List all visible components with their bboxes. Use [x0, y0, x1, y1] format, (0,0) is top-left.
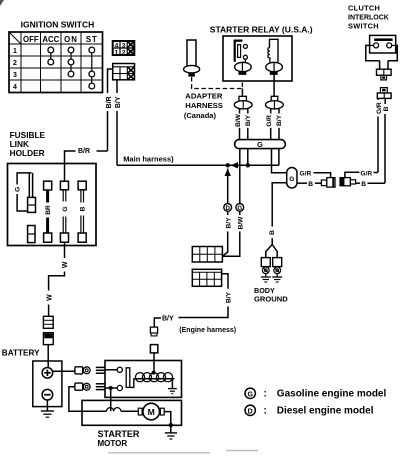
relay coil symbol: [268, 39, 278, 62]
switch contacts: [370, 44, 374, 46]
starter relay box: [223, 36, 292, 81]
svg-text:ON: ON: [64, 35, 78, 44]
SECTION: body ground: [254, 230, 288, 303]
svg-text:IGNITION SWITCH: IGNITION SWITCH: [21, 19, 95, 29]
wire G/R down: [377, 98, 379, 100]
motor inductor: [107, 408, 121, 412]
legend G circle: [245, 388, 255, 398]
prong connector (top): [96, 367, 105, 373]
ignition switch table grid: [9, 32, 103, 93]
wire relay to connector (left): [241, 89, 243, 97]
svg-text:GROUND: GROUND: [254, 294, 288, 303]
svg-text:2: 2: [13, 60, 17, 67]
wire down to solenoid: [153, 353, 155, 361]
split to two grounds: [266, 245, 272, 258]
svg-text:G/R: G/R: [300, 171, 312, 178]
inline connector (striped): [43, 316, 53, 328]
fusible link B: [78, 181, 87, 242]
wire B down: [384, 98, 386, 104]
svg-text:B/R: B/R: [106, 96, 113, 108]
wire from bottom connector loop to motor: [69, 387, 107, 412]
SECTION: bus and middle wiring: [117, 140, 385, 361]
leads and labels G/R, B/Y: [270, 109, 272, 114]
svg-text:1: 1: [115, 50, 119, 57]
relay coil base: [266, 62, 283, 71]
wire B/Y(D) below circle: [227, 211, 229, 215]
contact circles: [48, 47, 95, 89]
svg-text:B/W: B/W: [237, 216, 244, 230]
switch bar: [374, 38, 392, 41]
bullet connector with eyelet (top): [75, 367, 90, 374]
svg-text:STARTER: STARTER: [98, 429, 140, 439]
junction dot on motor box edge: [169, 423, 173, 427]
junction dot on coil (B/Y entry): [152, 371, 156, 375]
arrow left on harness: [231, 162, 239, 168]
battery plus terminal: [42, 368, 53, 379]
wire B/W(G) below circle: [239, 211, 241, 215]
inline connector (dark top): [43, 333, 53, 345]
spare connector below: [28, 226, 35, 243]
svg-text:CLUTCH: CLUTCH: [348, 3, 380, 12]
clutch connector lower: [377, 88, 391, 99]
junction dot 2: [246, 163, 250, 167]
svg-text:B: B: [308, 181, 313, 188]
svg-text:MOTOR: MOTOR: [98, 439, 128, 448]
wire B left of oval to body ground drop: [272, 183, 287, 227]
SECTION: battery and starter motor: [2, 348, 182, 448]
svg-text:4: 4: [13, 84, 17, 91]
svg-text:G: G: [289, 176, 294, 183]
solenoid coil winding: [135, 373, 172, 382]
legend D circle: [245, 405, 255, 415]
ground terminal right: [272, 258, 282, 282]
label B on oval right: [297, 182, 307, 184]
solenoid contact stub top: [105, 369, 117, 371]
svg-text:B/Y: B/Y: [245, 114, 252, 126]
connector bus G (stadium): [235, 140, 286, 149]
circle D marker: [224, 204, 232, 212]
solenoid coil axis: [134, 378, 175, 380]
svg-text:OFF: OFF: [23, 35, 39, 44]
battery minus terminal: [42, 389, 53, 400]
connector oval G: [287, 168, 297, 189]
svg-text:(Canada): (Canada): [184, 111, 217, 120]
fusible link G loop: [17, 173, 32, 211]
contact connection lines: [51, 50, 92, 86]
motor box: [82, 400, 182, 425]
svg-text:B: B: [80, 206, 87, 211]
solenoid box: [105, 361, 182, 398]
wire G/R hook into right bullet: [345, 172, 360, 177]
engine connector block 1: [192, 247, 222, 263]
wire B/Y into solenoid: [153, 361, 155, 373]
svg-text:Gasoline engine model: Gasoline engine model: [277, 389, 387, 400]
wire W to battery: [47, 345, 49, 368]
svg-text:B/Y: B/Y: [115, 96, 122, 108]
connector pair below relay (left): [234, 96, 252, 109]
motor brushes: [138, 408, 142, 415]
wire G/R to clutch: [374, 172, 379, 174]
relay contact symbol: [235, 41, 248, 63]
SECTION: fusible link holder: [8, 130, 108, 368]
svg-text:B: B: [361, 181, 366, 188]
clutch switch box: [370, 35, 396, 53]
svg-text:ADAPTER: ADAPTER: [185, 91, 223, 100]
switch side wires: [366, 45, 380, 60]
wire B/Y from block 2: [222, 274, 228, 289]
circle G marker: [236, 204, 244, 212]
label B/Y (vertical): [114, 93, 122, 111]
svg-text:G/R: G/R: [360, 170, 372, 177]
wire W down from G link: [64, 242, 66, 258]
bus leg to harness junction: [247, 149, 249, 166]
svg-text:1: 1: [13, 48, 17, 55]
wire W to connector: [48, 305, 50, 317]
SECTION: legend: [245, 388, 386, 417]
svg-text:ACC: ACC: [42, 35, 59, 44]
fusible link holder box: [8, 164, 97, 246]
connector block (numbered 4/3/1/2): [113, 41, 135, 57]
dashed wire adapter to relay: [192, 77, 243, 89]
solenoid contact circle bottom: [117, 385, 122, 390]
svg-text:G: G: [62, 206, 69, 211]
bullet connector left: [321, 178, 335, 188]
svg-text:B/W: B/W: [235, 113, 242, 127]
wire contact to motor: [110, 388, 112, 411]
svg-text:STARTER RELAY (U.S.A.): STARTER RELAY (U.S.A.): [210, 24, 313, 34]
svg-text:Diesel engine model: Diesel engine model: [277, 406, 374, 417]
motor circle: [143, 403, 160, 420]
scan artifact marks: [0, 0, 4, 6]
svg-text:D: D: [225, 205, 230, 212]
prong connector (bottom): [96, 384, 105, 390]
clutch connector upper: [377, 69, 392, 80]
svg-text:B/Y: B/Y: [162, 316, 174, 323]
wire from G link up to B/R label: [65, 151, 76, 181]
battery box: [33, 361, 62, 407]
SECTION: connector blocks top left: [105, 41, 135, 165]
fusible link G connector: [28, 197, 36, 212]
svg-text::: :: [264, 406, 267, 417]
solenoid contact circle top: [117, 367, 122, 372]
arrow up on D wire: [225, 169, 231, 176]
svg-text:B: B: [269, 230, 276, 235]
solenoid plunger bar: [126, 368, 130, 388]
adapter harness fusible link: [184, 40, 200, 77]
wire G/R to bullet connector: [314, 173, 331, 178]
svg-text:SWITCH: SWITCH: [348, 21, 379, 30]
wire battery plus to connector: [53, 370, 75, 372]
svg-text:Main harness): Main harness): [123, 155, 174, 164]
svg-text:G: G: [257, 140, 263, 149]
solenoid contact stub bottom: [105, 387, 117, 389]
junction dot 1: [226, 163, 230, 167]
bus leg to G circle wire (B/W): [239, 149, 241, 204]
solenoid coil ground: [171, 379, 173, 389]
switch stem: [379, 61, 381, 69]
wire B to clutch: [368, 182, 386, 184]
svg-text:BATTERY: BATTERY: [2, 348, 40, 357]
wire B resumes: [271, 238, 273, 245]
svg-text:(Engine harness): (Engine harness): [179, 327, 236, 334]
bullet connector with eyelet (bottom): [75, 383, 90, 390]
wire D branch down: [227, 169, 229, 204]
svg-text:B: B: [383, 106, 390, 111]
fusible link BR: [44, 181, 53, 242]
engine harness connector A: [150, 327, 157, 336]
svg-text:ST: ST: [86, 35, 98, 44]
wire B/R from connector block: [108, 69, 113, 151]
wire relay coil to connector (right): [273, 75, 275, 96]
label B/R (vertical): [105, 93, 113, 111]
svg-text:G/R: G/R: [376, 102, 383, 114]
battery ground: [46, 400, 48, 411]
svg-text:B/Y: B/Y: [276, 114, 283, 126]
svg-text:W: W: [46, 294, 53, 301]
svg-text:G/R: G/R: [266, 115, 273, 127]
main harness wire: [117, 164, 279, 166]
wire motor to ground: [164, 412, 171, 426]
svg-text:G: G: [15, 187, 22, 192]
SECTION: ignition switch: [9, 19, 103, 92]
wire B/Y from connector block: [116, 80, 118, 166]
svg-text:G: G: [247, 391, 253, 398]
wire B after bullet: [356, 182, 360, 184]
svg-text::: :: [264, 389, 267, 400]
ground terminal left: [261, 258, 271, 282]
svg-text:B/Y: B/Y: [226, 291, 233, 303]
bullet connector right: [339, 177, 355, 186]
connector pair below relay (right): [266, 96, 284, 109]
bus leg to oval G/R: [272, 149, 287, 173]
junction dot on bottom stub: [109, 386, 113, 390]
wire W elbow: [49, 272, 65, 291]
SECTION: starter relay: [184, 24, 313, 140]
leads and labels B/W, B/Y: [239, 109, 241, 114]
svg-text:B/R: B/R: [78, 148, 90, 155]
svg-text:HOLDER: HOLDER: [10, 148, 45, 158]
svg-text:G: G: [237, 205, 242, 212]
svg-text:M: M: [148, 407, 155, 417]
svg-text:BR: BR: [45, 205, 52, 215]
svg-text:B/Y: B/Y: [225, 217, 232, 229]
svg-text:4: 4: [115, 43, 119, 50]
svg-text:3: 3: [122, 43, 126, 50]
wire to engine harness connector: [154, 318, 161, 327]
SECTION: clutch interlock switch: [348, 3, 397, 183]
engine connector block 2: [192, 269, 221, 286]
relay contact base: [235, 62, 252, 71]
engine harness connector B: [150, 345, 157, 353]
svg-text:2: 2: [122, 50, 126, 57]
connector block below (with X cells): [113, 64, 135, 80]
wire dash to B/R vertical: [97, 150, 108, 152]
svg-text:D: D: [248, 408, 253, 415]
fusible link G (middle): [60, 181, 69, 242]
svg-text:W: W: [62, 261, 69, 268]
bus leg right to harness end: [278, 149, 280, 166]
svg-text:HARNESS: HARNESS: [185, 101, 223, 110]
svg-text:3: 3: [13, 72, 17, 79]
starter motor ground: [170, 425, 172, 432]
